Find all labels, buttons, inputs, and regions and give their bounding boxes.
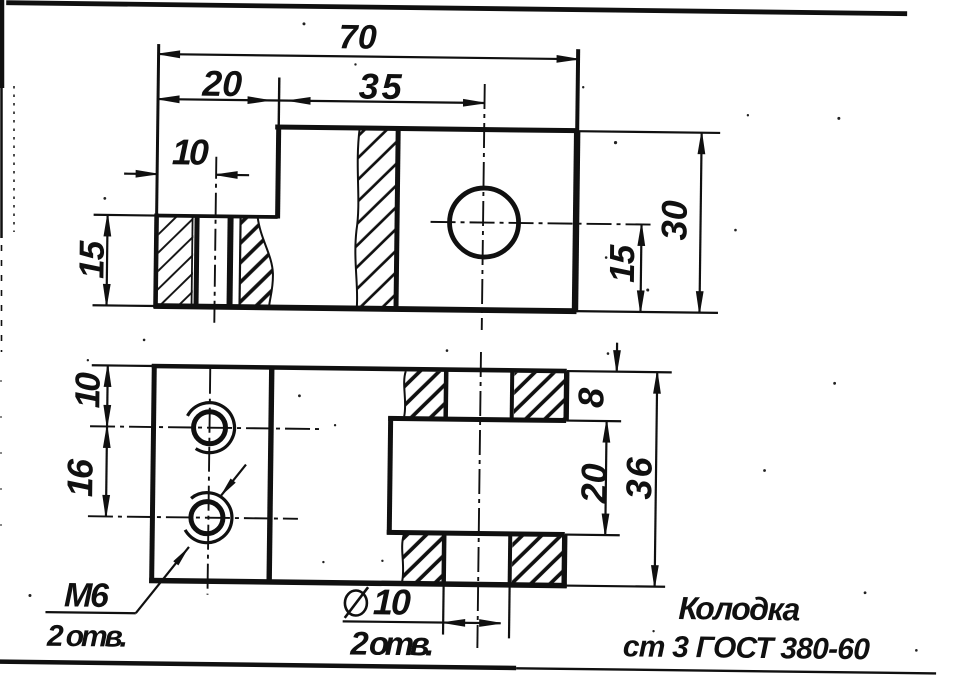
left edge xyxy=(152,364,155,583)
page bottom border thin part xyxy=(516,668,936,673)
slot top wall extension right (8/20 dims) xyxy=(566,419,621,422)
M6 hole thin thread line left xyxy=(192,216,193,306)
svg-text:70: 70 xyxy=(339,18,378,56)
lower hole horizontal centerline xyxy=(88,516,298,519)
left edge extension up (70/20 dim) xyxy=(157,44,159,215)
svg-text:ст 3 ГОСТ 380-60: ст 3 ГОСТ 380-60 xyxy=(623,630,871,666)
M6 second arrowhead xyxy=(217,479,235,500)
bottom edge extension left (15 dim) xyxy=(93,304,156,307)
hole wall extension left (dia 10 dim) xyxy=(442,584,445,634)
dimension 36 (right) xyxy=(651,372,660,587)
svg-text:2 отв.: 2 отв. xyxy=(46,620,128,654)
hole wall left, bottom strip xyxy=(441,533,446,584)
M6 second arrow segment xyxy=(220,464,246,497)
upper M6 hole circle xyxy=(193,412,225,444)
svg-text:20: 20 xyxy=(573,463,614,504)
hatch region A (left wall section) xyxy=(158,216,194,307)
svg-text:10: 10 xyxy=(172,131,209,172)
svg-text:36: 36 xyxy=(618,456,660,499)
svg-text:10: 10 xyxy=(373,581,411,622)
svg-text:8: 8 xyxy=(570,388,611,409)
dimension 15 left xyxy=(103,215,111,306)
svg-text:Колодка: Колодка xyxy=(678,590,800,627)
hatch patch top-right xyxy=(514,373,565,419)
lower M6 thread arc xyxy=(172,482,242,552)
right edge upper segment xyxy=(563,371,569,420)
hole wall left, top strip xyxy=(443,370,448,419)
wavy break line of region B xyxy=(257,217,274,308)
M6 holes vertical centerline xyxy=(207,369,210,595)
wavy edge of patch top-left xyxy=(404,371,406,416)
middle band right thick edge xyxy=(396,128,398,308)
dimension 10 (front view) xyxy=(124,170,249,178)
dimension 16 (plan, left) xyxy=(103,426,111,516)
right edge lower segment xyxy=(561,535,567,588)
slot bottom wall extension right (20 dim) xyxy=(565,533,620,536)
hatch patch top-left (wavy) xyxy=(404,371,444,417)
hole wall extension right (dia 10 dim) xyxy=(508,585,511,638)
dimension 30 right xyxy=(696,133,705,313)
M6 leader shelf xyxy=(45,612,135,613)
page bottom border thick part xyxy=(0,662,516,668)
page fold dotted line xyxy=(13,86,15,232)
dimension 15 right xyxy=(637,224,645,312)
hole axis vertical centerline (lower) xyxy=(477,352,481,648)
bottom edge xyxy=(154,306,577,311)
step top edge xyxy=(155,216,278,218)
top edge extension right (8/36 dims) xyxy=(567,371,672,372)
inner step line xyxy=(269,367,272,581)
hole wall right, top strip xyxy=(510,370,515,419)
lower M6 hole circle xyxy=(191,501,223,533)
M6 hole thin thread line right xyxy=(240,217,241,307)
diameter symbol xyxy=(345,587,368,618)
svg-text:16: 16 xyxy=(59,458,100,497)
step edge extension up (35 dim) xyxy=(278,78,281,127)
bottom edge extension right (15/30 dims) xyxy=(575,311,718,313)
dimension 35 xyxy=(279,97,485,106)
step top edge extension left xyxy=(94,214,157,217)
wavy edge of patch bottom-left xyxy=(402,535,404,582)
wavy break line of middle band xyxy=(355,128,360,309)
right edge xyxy=(575,131,577,312)
horizontal centerline of circle xyxy=(431,222,653,225)
svg-text:30: 30 xyxy=(653,200,694,240)
vertical centerline (hole axis, upper) xyxy=(482,84,485,330)
svg-text:2 отв.: 2 отв. xyxy=(349,624,434,662)
svg-text:10: 10 xyxy=(68,371,107,408)
M6 axis centerline (front view) xyxy=(214,157,216,325)
top edge xyxy=(275,127,577,131)
dimension 70 xyxy=(159,51,579,63)
M6 hole thick line right xyxy=(230,218,231,307)
top edge extension left xyxy=(92,364,154,367)
svg-text:М6: М6 xyxy=(64,576,111,615)
M6 leader line xyxy=(136,546,189,614)
svg-text:15: 15 xyxy=(72,240,111,279)
dimension dia 10 xyxy=(343,618,501,627)
hole circle in front view xyxy=(449,188,519,258)
bottom edge extension right (36 dim) xyxy=(564,586,665,587)
M6 hole thick line left xyxy=(196,218,197,307)
outline: top edge xyxy=(152,366,567,371)
top edge extension right (30 dim) xyxy=(577,131,720,133)
bottom edge xyxy=(149,580,566,585)
slot top wall xyxy=(388,418,566,420)
dimension 8 (right) xyxy=(613,343,620,372)
page top border xyxy=(6,3,907,14)
page left torn edge xyxy=(1,0,2,560)
top view outline: left edge xyxy=(155,214,156,308)
hole wall right, bottom strip xyxy=(508,534,513,585)
step vertical edge xyxy=(278,127,279,218)
right edge extension up (70 dim) xyxy=(575,49,580,130)
dimension 10 (plan, left) xyxy=(104,365,111,426)
hatch patch bottom-right xyxy=(512,536,563,583)
svg-text:15: 15 xyxy=(603,244,642,283)
upper M6 thread arc xyxy=(176,394,244,462)
hatch region B (right of M6 hole, wavy break edge) xyxy=(240,217,274,308)
hatch middle band (broken-out section) xyxy=(355,128,399,309)
dimension 20 (right) xyxy=(602,421,610,535)
slot bottom wall xyxy=(387,532,565,534)
upper hole horizontal centerline xyxy=(90,426,323,429)
M6 leader arrowhead xyxy=(173,545,191,566)
svg-text:20: 20 xyxy=(201,63,242,104)
hatch patch bottom-left (wavy) xyxy=(402,535,442,582)
slot left wall xyxy=(389,416,390,534)
dimension 20 xyxy=(158,96,279,104)
